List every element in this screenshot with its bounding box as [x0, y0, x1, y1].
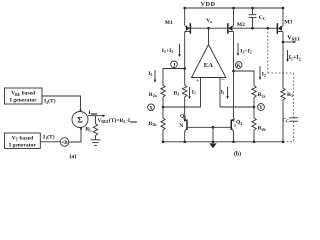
svg-text:K: K [237, 63, 241, 69]
multiplier xB circle [60, 138, 69, 147]
right I2 arrow [259, 66, 266, 80]
resistor R2b right [252, 118, 266, 132]
svg-text:R2a: R2a [258, 92, 266, 98]
rail junction Q1 collector [183, 141, 186, 144]
VDD rail [185, 7, 283, 9]
node X [148, 104, 165, 112]
wire RL to ground [95, 136, 97, 140]
resistor R2a right [252, 86, 266, 99]
svg-text:(a): (a) [70, 153, 77, 160]
EA input wire left [163, 78, 201, 108]
svg-text:I1: I1 [192, 89, 196, 95]
base ground stub [212, 126, 215, 142]
resistor R3 [281, 88, 293, 100]
svg-text:+: + [196, 78, 199, 84]
transistor M1 [165, 8, 191, 69]
svg-text:RL: RL [85, 126, 92, 132]
svg-text:×B: ×B [61, 141, 68, 146]
wire I2 from box to summer [42, 96, 82, 112]
svg-text:−: − [221, 77, 225, 84]
wire K to right divider [234, 71, 255, 86]
error amplifier EA [192, 28, 226, 84]
wire R3 to ground rail [282, 100, 284, 142]
svg-text:VDD: VDD [201, 2, 216, 8]
resistor RL [85, 124, 98, 136]
svg-text:R3: R3 [287, 92, 293, 98]
svg-text:M1: M1 [165, 20, 173, 26]
svg-text:I2: I2 [262, 72, 266, 78]
svg-text:VT based: VT based [12, 135, 35, 141]
dashed wire cap to rail [293, 122, 295, 142]
transistor M3 [277, 8, 293, 42]
ground rail [163, 141, 283, 143]
wire J to left divider [163, 68, 185, 70]
middle I1+I2 arrow [237, 43, 252, 56]
wire R2b to ground rail [162, 130, 164, 142]
svg-text:VREF(T)=RL·Isum: VREF(T)=RL·Isum [98, 117, 138, 124]
svg-text:CC: CC [259, 15, 266, 21]
svg-text:I1(T): I1(T) [43, 133, 55, 140]
gate line Vo [191, 27, 277, 29]
svg-text:Isum: Isum [89, 110, 99, 116]
svg-text:I generator: I generator [9, 142, 36, 148]
rail junction M2 [232, 7, 235, 10]
EA input wire right [220, 78, 254, 108]
rail junction left divider [162, 141, 165, 144]
wire R2a to Y [253, 98, 255, 119]
left I1+I2 current arrow [162, 44, 181, 58]
gate junction CC [251, 27, 254, 30]
svg-text:R2a: R2a [149, 92, 157, 98]
summer output wire with arrow [88, 114, 105, 117]
dashed compensation path [268, 28, 294, 117]
svg-text:I2(T): I2(T) [44, 98, 56, 105]
svg-text:M3: M3 [284, 20, 292, 26]
svg-text:I1: I1 [221, 89, 225, 95]
svg-text:Q1: Q1 [180, 113, 186, 119]
transistor M2 [227, 8, 245, 71]
wire VREF to R3 [282, 42, 284, 88]
node J [171, 61, 186, 70]
resistor R2a left [149, 85, 165, 98]
svg-text:I1+I2: I1+I2 [289, 55, 301, 61]
block VT-based I generator [5, 133, 41, 149]
wire K to Q2 [233, 71, 235, 118]
svg-text:VBE based: VBE based [11, 91, 36, 97]
svg-text:VREF: VREF [287, 34, 300, 41]
gate junction EA [207, 27, 210, 30]
node K [232, 62, 242, 73]
wire R1 to Q1 [184, 97, 186, 118]
svg-text:(b): (b) [234, 150, 241, 157]
capacitor CC (dashed option, Vo to ground) [282, 117, 298, 123]
resistor R2b left [148, 118, 165, 130]
rail junction CC [251, 7, 254, 10]
capacitor CC (solid, VDD to Vo) [249, 8, 266, 28]
summer circle [72, 112, 88, 128]
rail junction M3 [282, 7, 285, 10]
left I1 arrow [188, 87, 196, 99]
svg-text:Σ: Σ [77, 116, 83, 125]
svg-text:M2: M2 [237, 22, 245, 28]
wire multiplier to summer [69, 127, 83, 142]
wire to RL [95, 116, 97, 124]
resistor R1 [174, 69, 187, 97]
svg-text:R2b: R2b [258, 126, 266, 132]
rail junction right divider [253, 141, 256, 144]
transistor Q2 [213, 118, 242, 142]
svg-text:R2b: R2b [148, 121, 156, 127]
wire R2b to ground rail [253, 130, 255, 142]
svg-text:R1: R1 [174, 90, 180, 96]
svg-text:I1+I2: I1+I2 [240, 48, 251, 54]
left I2 arrow [148, 70, 156, 83]
svg-text:Q2: Q2 [236, 120, 242, 126]
wire R2a to X [162, 97, 164, 118]
VREF node and arrow [282, 34, 301, 43]
ground rail dashed extension [283, 141, 294, 143]
node Y [253, 104, 265, 112]
svg-text:I generator: I generator [10, 98, 37, 104]
svg-text:EA: EA [204, 62, 213, 69]
rail junction Q2 collector [232, 141, 235, 144]
ground (a) [91, 140, 101, 146]
rail junction base stub [212, 141, 215, 144]
ground symbol (b) [209, 143, 216, 148]
transistor Q1 [179, 113, 213, 141]
right I1 arrow [221, 87, 229, 99]
rail junction R3 [282, 141, 285, 144]
wire box2 to multiplier [40, 141, 60, 143]
svg-text:N: N [179, 123, 183, 129]
svg-text:Y: Y [259, 105, 263, 111]
svg-text:I1+I2: I1+I2 [162, 48, 173, 54]
svg-text:J: J [173, 63, 176, 69]
gate junction dashed CC [267, 27, 270, 30]
svg-text:CC: CC [282, 117, 289, 123]
rail junction M1 [183, 7, 186, 10]
right I1+I2 arrow [286, 50, 300, 62]
svg-text:Vo: Vo [206, 18, 212, 24]
svg-text:I2: I2 [148, 71, 152, 77]
block VBE-based I generator [5, 88, 43, 104]
svg-text:X: X [149, 105, 153, 111]
